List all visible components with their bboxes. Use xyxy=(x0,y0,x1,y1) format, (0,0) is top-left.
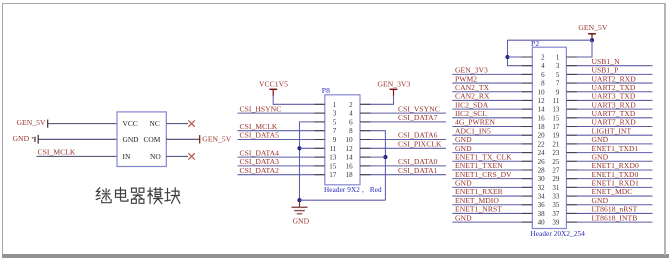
svg-text:18: 18 xyxy=(538,123,546,131)
wire CSI_DATA0 to P8 xyxy=(360,165,446,167)
wire ENET1_RXD1 to P2 xyxy=(566,186,652,188)
svg-text:ENET1_TXEN: ENET1_TXEN xyxy=(455,161,503,170)
svg-text:CSI_MCLK: CSI_MCLK xyxy=(38,148,76,157)
svg-text:36: 36 xyxy=(538,201,546,209)
wire GND vertical to P8 pin 11 xyxy=(300,147,325,149)
wire GND to P2 xyxy=(452,221,532,223)
connector P8 box and pins xyxy=(314,95,370,185)
svg-text:Header 20X2_254: Header 20X2_254 xyxy=(531,230,586,238)
junction at GND rail left xyxy=(297,198,301,202)
wire CSI_DATA4 to P8 xyxy=(238,156,325,158)
wire CSI_HSYNC to P8 xyxy=(238,112,325,114)
wire GEN_3V3 to P2 xyxy=(452,73,532,75)
svg-text:35: 35 xyxy=(552,201,560,209)
svg-text:31: 31 xyxy=(552,184,560,192)
svg-text:5: 5 xyxy=(333,118,337,126)
svg-text:5: 5 xyxy=(556,71,560,79)
svg-text:NC: NC xyxy=(150,119,160,128)
wire GEN_5V to VCC xyxy=(48,123,117,125)
svg-text:PWM2: PWM2 xyxy=(455,74,477,83)
wire LIGHT_INT to P2 xyxy=(566,134,652,136)
svg-text:33: 33 xyxy=(552,193,560,201)
svg-text:40: 40 xyxy=(538,219,546,227)
svg-text:18: 18 xyxy=(346,171,354,179)
svg-text:UART7_RXD: UART7_RXD xyxy=(592,118,637,127)
svg-text:ENET1_TX_CLK: ENET1_TX_CLK xyxy=(455,152,512,161)
svg-text:10: 10 xyxy=(538,88,546,96)
svg-text:CSI_PIXCLK: CSI_PIXCLK xyxy=(398,140,442,149)
wire to P2 pin 2 xyxy=(508,56,533,58)
wire ENET_MDC to P2 xyxy=(566,195,652,197)
svg-text:39: 39 xyxy=(552,219,560,227)
svg-text:21: 21 xyxy=(552,140,560,148)
svg-text:ADC1_IN5: ADC1_IN5 xyxy=(455,126,491,135)
svg-text:10: 10 xyxy=(346,136,354,144)
svg-text:GND: GND xyxy=(293,216,310,225)
svg-text:27: 27 xyxy=(552,166,560,174)
wire CSI_DATA6 to P8 xyxy=(360,139,446,141)
svg-text:9: 9 xyxy=(556,88,560,96)
svg-text:3: 3 xyxy=(556,62,560,70)
wire CSI_DATA2 to P8 xyxy=(238,174,325,176)
wire VCC1V5 to P8 pin 1 xyxy=(273,96,325,105)
svg-text:11: 11 xyxy=(553,97,560,105)
svg-text:NO: NO xyxy=(150,152,161,161)
port GEN_5V (relay input) xyxy=(17,118,48,128)
wire ENET1_TXEN to P2 xyxy=(452,169,532,171)
svg-text:14: 14 xyxy=(538,106,546,114)
wire USB1_P to P2 xyxy=(566,73,652,75)
svg-text:P2: P2 xyxy=(531,39,539,48)
wire UART7_RXD to P2 xyxy=(566,126,652,128)
svg-text:6: 6 xyxy=(541,71,545,79)
svg-text:ENET1_RXD0: ENET1_RXD0 xyxy=(592,161,639,170)
wire LT8618_INTB to P2 xyxy=(566,221,652,223)
svg-text:LIGHT_INT: LIGHT_INT xyxy=(592,126,632,135)
svg-text:12: 12 xyxy=(346,145,354,153)
svg-text:USB1_N: USB1_N xyxy=(592,57,621,66)
wire ENET1_NRST to P2 xyxy=(452,212,532,214)
svg-text:32: 32 xyxy=(538,184,546,192)
wire LT8618_nRST to P2 xyxy=(566,212,652,214)
wire ADC1_IN5 to P2 xyxy=(452,134,532,136)
wire CSI_DATA1 to P8 xyxy=(360,174,446,176)
GND bottom rail wire xyxy=(300,199,386,201)
svg-text:30: 30 xyxy=(538,175,546,183)
wire GND to P2 xyxy=(452,152,532,154)
svg-text:28: 28 xyxy=(538,166,546,174)
svg-text:26: 26 xyxy=(538,158,546,166)
wire feeder vertical to pin 4 xyxy=(508,40,533,65)
svg-text:CSI_DATA7: CSI_DATA7 xyxy=(398,113,438,122)
wire UART7_TXD to P2 xyxy=(566,117,652,119)
svg-text:7: 7 xyxy=(556,80,560,88)
wire ENET1_CRS_DV to P2 xyxy=(452,178,532,180)
svg-text:GND: GND xyxy=(123,135,140,144)
wire GND to P2 xyxy=(566,160,652,162)
svg-text:IN: IN xyxy=(123,152,131,161)
svg-text:GND: GND xyxy=(455,144,472,153)
wire CSI_MCLK to IN xyxy=(37,155,118,157)
wire ENET1_TX_CLK to P2 xyxy=(452,160,532,162)
svg-text:GEN_3V3: GEN_3V3 xyxy=(378,80,411,89)
svg-text:VCC1V5: VCC1V5 xyxy=(259,80,288,89)
ground symbol GND xyxy=(292,200,310,225)
svg-text:LT8618_INTB: LT8618_INTB xyxy=(592,213,638,222)
svg-text:23: 23 xyxy=(552,149,560,157)
wire CAN2_RX to P2 xyxy=(452,99,532,101)
svg-text:CSI_DATA4: CSI_DATA4 xyxy=(240,148,280,157)
svg-text:24: 24 xyxy=(538,149,546,157)
svg-text:1: 1 xyxy=(556,54,560,62)
wire NO out xyxy=(166,155,188,157)
svg-text:UART7_TXD: UART7_TXD xyxy=(592,109,636,118)
svg-text:38: 38 xyxy=(538,210,546,218)
wire P8 pin 2 to GEN_3V3 xyxy=(360,96,394,105)
svg-text:UART2_TXD: UART2_TXD xyxy=(592,83,636,92)
wire NC out xyxy=(166,123,188,125)
svg-text:CAN2_RX: CAN2_RX xyxy=(455,92,490,101)
wire P8 pin 8 to GND vertical right xyxy=(360,131,385,201)
svg-text:8: 8 xyxy=(349,127,353,135)
svg-text:17: 17 xyxy=(329,171,337,179)
svg-text:GEN_3V3: GEN_3V3 xyxy=(455,66,488,75)
svg-text:GEN_5V: GEN_5V xyxy=(17,118,46,127)
svg-text:CSI_MCLK: CSI_MCLK xyxy=(240,122,278,131)
svg-text:GND: GND xyxy=(455,213,472,222)
wire P8 pin 5 to GND vertical xyxy=(300,122,325,200)
svg-text:USB1_P: USB1_P xyxy=(592,66,619,75)
svg-text:GEN_5V: GEN_5V xyxy=(202,135,231,144)
wire GND to P2 xyxy=(566,143,652,145)
svg-text:22: 22 xyxy=(538,140,546,148)
wire COM out xyxy=(166,138,199,140)
wire GND to P2 xyxy=(566,204,652,206)
wire USB1_N to P2 xyxy=(566,65,652,67)
svg-text:4: 4 xyxy=(541,62,545,70)
svg-text:CSI_DATA1: CSI_DATA1 xyxy=(398,166,438,175)
power VCC1V5 xyxy=(259,80,288,96)
svg-text:34: 34 xyxy=(538,193,546,201)
svg-text:3: 3 xyxy=(333,110,337,118)
wire IIC2_SCL to P2 xyxy=(452,117,532,119)
svg-text:2: 2 xyxy=(541,54,545,62)
wire ENET1_TXD1 to P2 xyxy=(566,152,652,154)
svg-text:29: 29 xyxy=(552,175,560,183)
svg-text:8: 8 xyxy=(541,80,545,88)
svg-text:GND: GND xyxy=(455,179,472,188)
svg-text:ENET_MDIO: ENET_MDIO xyxy=(455,196,499,205)
wire CSI_DATA7 to P8 xyxy=(360,121,446,123)
svg-text:UART3_RXD: UART3_RXD xyxy=(592,100,637,109)
svg-text:CSI_DATA0: CSI_DATA0 xyxy=(398,157,438,166)
svg-text:4: 4 xyxy=(349,110,353,118)
wire CSI_PIXCLK to P8 xyxy=(360,147,446,149)
svg-text:CSI_DATA5: CSI_DATA5 xyxy=(240,131,280,140)
svg-text:20: 20 xyxy=(538,132,546,140)
svg-text:13: 13 xyxy=(329,154,337,162)
svg-text:GND: GND xyxy=(592,196,609,205)
port GEN_5V (COM output) xyxy=(200,135,232,144)
svg-text:ENET1_RXER: ENET1_RXER xyxy=(455,187,504,196)
wire UART2_RXD to P2 xyxy=(566,82,652,84)
wire UART2_TXD to P2 xyxy=(566,91,652,93)
junction GEN_5V stem xyxy=(590,38,594,42)
svg-text:GND: GND xyxy=(13,134,30,143)
svg-text:CSI_DATA6: CSI_DATA6 xyxy=(398,131,438,140)
svg-text:GND: GND xyxy=(455,135,472,144)
wire GND to relay GND pin xyxy=(38,138,117,140)
wire UART3_RXD to P2 xyxy=(566,108,652,110)
wire ENET1_RXD0 to P2 xyxy=(566,169,652,171)
no-connect X on NO xyxy=(188,153,194,159)
wire CSI_MCLK to P8 xyxy=(238,130,325,132)
svg-text:P8: P8 xyxy=(322,86,330,95)
svg-text:ENET_MDC: ENET_MDC xyxy=(592,187,633,196)
wire 4G_PWREN to P2 xyxy=(452,126,532,128)
wire ENET1_RXER to P2 xyxy=(452,195,532,197)
svg-text:ENET1_TXD1: ENET1_TXD1 xyxy=(592,144,639,153)
svg-text:ENET1_RXD1: ENET1_RXD1 xyxy=(592,179,639,188)
wire GND to P2 xyxy=(452,186,532,188)
svg-text:14: 14 xyxy=(346,154,354,162)
wire ENET_MDIO to P2 xyxy=(452,204,532,206)
junction at P8 pin 11 row xyxy=(297,146,301,150)
junction at pin 2 row xyxy=(505,55,509,59)
svg-text:11: 11 xyxy=(330,145,337,153)
svg-text:4G_PWREN: 4G_PWREN xyxy=(455,118,496,127)
svg-text:GEN_5V: GEN_5V xyxy=(578,23,607,32)
svg-text:ENET1_CRS_DV: ENET1_CRS_DV xyxy=(455,170,512,179)
wire GEN_5V to P2 pin 1 xyxy=(566,40,592,57)
wire PWM2 to P2 xyxy=(452,82,532,84)
power GEN_3V3 xyxy=(378,80,411,96)
svg-text:15: 15 xyxy=(552,114,560,122)
svg-text:12: 12 xyxy=(538,97,546,105)
connector P2 box and pins xyxy=(522,47,577,228)
wire ENET1_TXD0 to P2 xyxy=(566,178,652,180)
svg-text:13: 13 xyxy=(552,106,560,114)
wire P8 pin 14 to GND vertical xyxy=(360,156,385,158)
svg-text:VCC: VCC xyxy=(123,119,138,128)
caption text 继电器模块 (relay module) xyxy=(96,187,180,203)
svg-text:UART3_TXD: UART3_TXD xyxy=(592,92,636,101)
svg-text:19: 19 xyxy=(552,132,560,140)
wire CSI_VSYNC to P8 xyxy=(360,112,446,114)
wire GEN_5V top feeder xyxy=(508,39,593,41)
svg-text:7: 7 xyxy=(333,127,337,135)
svg-text:CSI_DATA2: CSI_DATA2 xyxy=(240,166,280,175)
svg-text:CSI_DATA3: CSI_DATA3 xyxy=(240,157,280,166)
junction at P8 pin 14 row xyxy=(383,155,387,159)
relay module box xyxy=(117,112,166,167)
svg-text:CSI_HSYNC: CSI_HSYNC xyxy=(240,104,282,113)
svg-text:2: 2 xyxy=(349,101,353,109)
no-connect X on NC xyxy=(188,120,194,126)
svg-text:25: 25 xyxy=(552,158,560,166)
wire CAN2_TX to P2 xyxy=(452,91,532,93)
svg-text:ENET1_TXD0: ENET1_TXD0 xyxy=(592,170,639,179)
svg-text:6: 6 xyxy=(349,118,353,126)
svg-text:17: 17 xyxy=(552,123,560,131)
wire CSI_DATA3 to P8 xyxy=(238,165,325,167)
wire UART3_TXD to P2 xyxy=(566,99,652,101)
wire IIC2_SDA to P2 xyxy=(452,108,532,110)
svg-text:16: 16 xyxy=(346,162,354,170)
svg-text:UART2_RXD: UART2_RXD xyxy=(592,74,637,83)
svg-text:LT8618_nRST: LT8618_nRST xyxy=(592,205,638,214)
svg-text:GND: GND xyxy=(592,152,609,161)
svg-text:COM: COM xyxy=(144,135,161,144)
svg-text:1: 1 xyxy=(333,101,337,109)
svg-text:CSI_VSYNC: CSI_VSYNC xyxy=(398,104,440,113)
svg-text:IIC2_SDA: IIC2_SDA xyxy=(455,100,489,109)
svg-text:GND: GND xyxy=(592,135,609,144)
svg-text:Header 9X2,Red: Header 9X2,Red xyxy=(324,186,382,194)
port GND (relay) xyxy=(13,134,39,144)
svg-text:16: 16 xyxy=(538,114,546,122)
svg-text:15: 15 xyxy=(329,162,337,170)
power GEN_5V (P2) xyxy=(578,23,607,40)
svg-text:ENET1_NRST: ENET1_NRST xyxy=(455,205,502,214)
svg-text:37: 37 xyxy=(552,210,560,218)
wire CSI_DATA5 to P8 xyxy=(238,139,325,141)
svg-text:CAN2_TX: CAN2_TX xyxy=(455,83,490,92)
wire GND to P2 xyxy=(452,143,532,145)
svg-text:IIC2_SCL: IIC2_SCL xyxy=(455,109,487,118)
svg-text:9: 9 xyxy=(333,136,337,144)
